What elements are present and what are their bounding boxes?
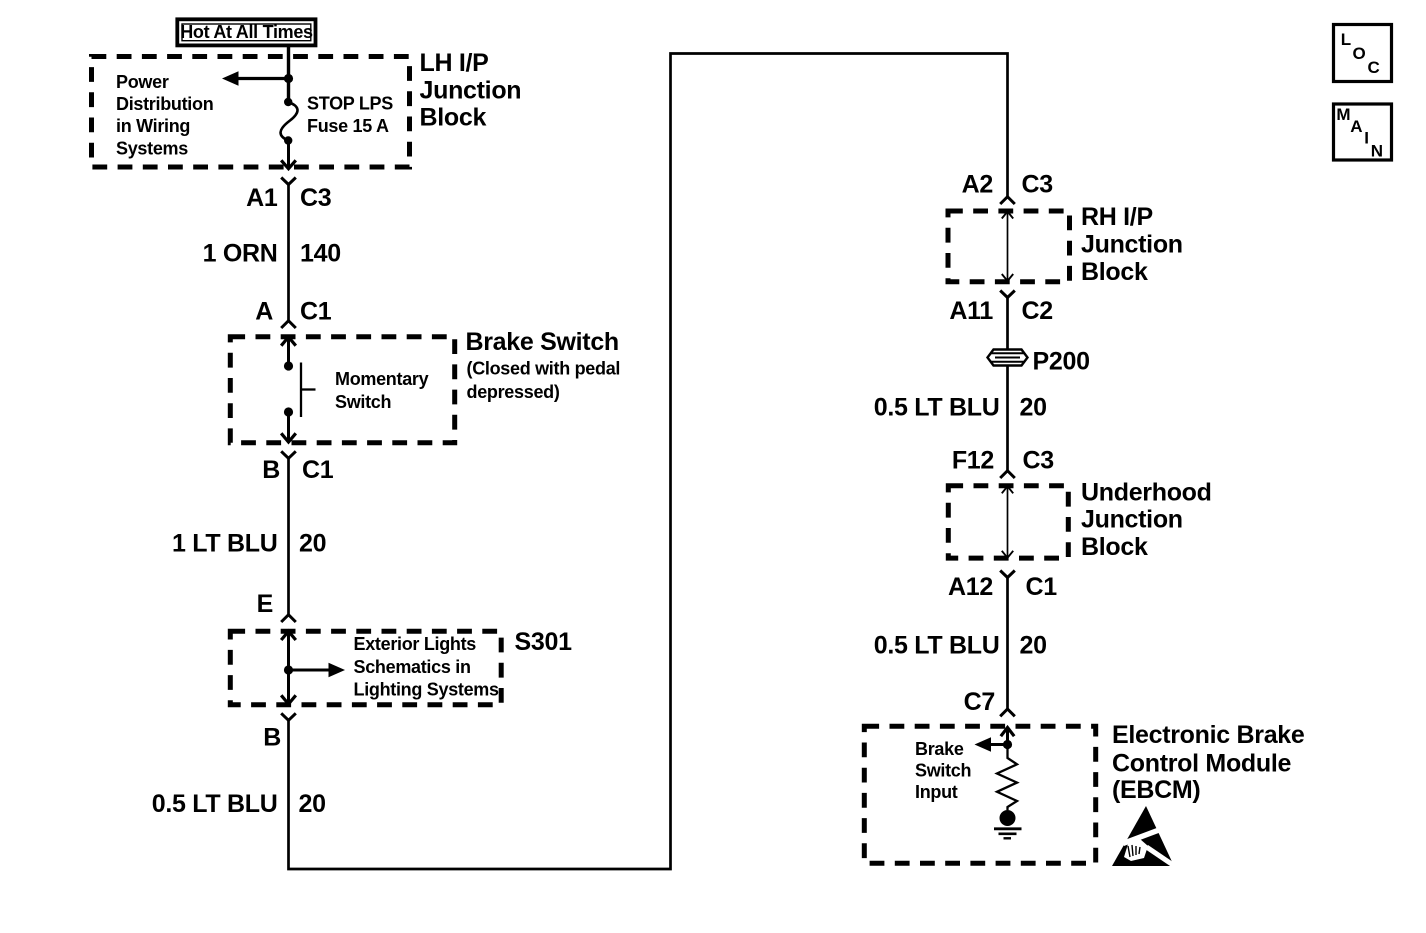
wire: 0.5 LT BLU 20 between P200 and Underhood JB xyxy=(1006,366,1009,471)
label: wire 1 LT BLU 20 xyxy=(172,530,326,558)
svg-text:140: 140 xyxy=(300,240,341,268)
svg-text:E: E xyxy=(257,590,273,618)
label: Power Distribution in Wiring Systems xyxy=(116,72,213,158)
svg-text:Momentary: Momentary xyxy=(335,369,429,389)
svg-text:Lighting Systems: Lighting Systems xyxy=(354,680,500,700)
svg-text:N: N xyxy=(1371,141,1383,160)
connector: chevron pin A12/C1 xyxy=(1000,571,1015,578)
svg-text:A: A xyxy=(255,298,273,326)
wire: 0.5 LT BLU 20 down to EBCM xyxy=(1006,578,1009,710)
label: pin A12 / C1 xyxy=(948,573,1057,601)
node: junction dot above fuse xyxy=(284,74,293,83)
svg-text:0.5 LT BLU: 0.5 LT BLU xyxy=(874,632,1000,660)
svg-text:Underhood: Underhood xyxy=(1081,478,1212,506)
svg-text:(EBCM): (EBCM) xyxy=(1112,776,1200,804)
component: Underhood Junction Block (dashed box) xyxy=(948,486,1068,558)
svg-text:C3: C3 xyxy=(1023,447,1054,475)
svg-text:20: 20 xyxy=(1020,632,1047,660)
svg-text:C7: C7 xyxy=(964,688,995,716)
svg-text:20: 20 xyxy=(299,530,326,558)
label: wire 0.5 LT BLU 20 (left) xyxy=(152,790,326,818)
svg-text:C2: C2 xyxy=(1022,297,1053,325)
svg-text:C1: C1 xyxy=(302,456,334,484)
wire: 0.5 LT BLU 20 long run to EBCM side xyxy=(289,54,1008,870)
svg-text:Junction: Junction xyxy=(420,76,522,104)
svg-text:0.5 LT BLU: 0.5 LT BLU xyxy=(152,790,278,818)
connector: chevron at Underhood JB entry xyxy=(1000,471,1015,478)
svg-text:Hot At All Times: Hot At All Times xyxy=(180,22,313,42)
label: pin A / C1 xyxy=(255,298,332,326)
svg-text:Control Module: Control Module xyxy=(1112,750,1291,778)
svg-text:Input: Input xyxy=(915,782,958,802)
svg-text:A2: A2 xyxy=(962,171,993,199)
connector: chevron pin B below S301 xyxy=(281,713,296,720)
component: LH I/P Junction Block (dashed box) xyxy=(92,57,410,168)
svg-text:B: B xyxy=(263,724,281,752)
label: RH I/P Junction Block xyxy=(1081,203,1183,286)
wire: battery feed from Hot At All Times into LH I/P junction block xyxy=(287,46,290,101)
label: pin F12 / C3 xyxy=(952,447,1054,475)
wire: branch arrow to Power Distribution xyxy=(222,71,289,86)
connector: female chevron pin A1/C3 xyxy=(281,178,296,185)
label: STOP LPS Fuse 15 A xyxy=(307,94,393,136)
svg-text:I: I xyxy=(1364,129,1369,148)
legend: MAIN reference box xyxy=(1334,104,1392,160)
svg-text:M: M xyxy=(1336,105,1350,124)
connector: chevron at brake switch entry xyxy=(281,321,296,328)
label: pin A1 / C3 xyxy=(246,184,331,212)
label: pin B / C1 xyxy=(262,456,334,484)
switch: momentary contacts inside brake switch xyxy=(281,337,315,442)
label: Brake Switch (Closed with pedal depressed) xyxy=(466,328,621,402)
node: Hot At All Times power feed box xyxy=(177,19,315,45)
svg-text:in Wiring: in Wiring xyxy=(116,116,190,136)
wire: pass-through with arrows inside RH I/P xyxy=(1002,212,1013,282)
svg-text:Brake: Brake xyxy=(915,739,964,759)
wire: down to P200 xyxy=(1006,298,1009,351)
svg-text:C1: C1 xyxy=(300,298,332,326)
EBCM input: arrow, node and branch to Brake Switch Input xyxy=(975,728,1015,752)
svg-text:A: A xyxy=(1350,117,1362,136)
svg-text:Block: Block xyxy=(1081,533,1148,561)
svg-text:Brake Switch: Brake Switch xyxy=(466,328,619,356)
connector: fuse output arrow at LH I/P box edge xyxy=(281,141,296,169)
svg-text:Exterior Lights: Exterior Lights xyxy=(354,634,477,654)
svg-text:STOP LPS: STOP LPS xyxy=(307,94,393,114)
svg-text:Electronic Brake: Electronic Brake xyxy=(1112,721,1305,749)
wire: 1 ORN 140 xyxy=(287,185,290,321)
connector: chevron at S301 entry xyxy=(281,615,296,622)
svg-text:1 ORN: 1 ORN xyxy=(203,240,278,268)
label: pin A2 / C3 xyxy=(962,171,1053,199)
svg-text:A12: A12 xyxy=(948,573,993,601)
connector: chevron pin B/C1 below brake switch xyxy=(281,451,296,458)
svg-text:Switch: Switch xyxy=(335,392,391,412)
resistor: EBCM internal pull resistor xyxy=(997,745,1017,811)
svg-text:20: 20 xyxy=(299,790,326,818)
component: RH I/P Junction Block (dashed box) xyxy=(948,211,1070,282)
svg-text:B: B xyxy=(262,456,280,484)
connector: chevron at RH I/P entry xyxy=(1000,197,1015,204)
svg-text:depressed): depressed) xyxy=(467,382,560,402)
label: wire 0.5 LT BLU 20 (upper right) xyxy=(874,394,1047,422)
svg-text:P200: P200 xyxy=(1033,348,1090,376)
symbol: ESD sensitive device xyxy=(1112,806,1176,868)
svg-text:Block: Block xyxy=(420,104,487,132)
svg-text:C: C xyxy=(1368,58,1380,77)
wire: 1 LT BLU 20 xyxy=(287,458,290,614)
svg-text:Block: Block xyxy=(1081,258,1148,286)
legend: LOC reference box xyxy=(1334,25,1392,82)
connector: chevron pin A11/C2 xyxy=(1000,291,1015,298)
label: LH I/P Junction Block xyxy=(420,49,522,132)
svg-text:C3: C3 xyxy=(300,184,331,212)
connector: chevron at EBCM entry xyxy=(1000,709,1015,716)
component: splice S301 (dashed box) xyxy=(230,631,501,704)
wire: pass-through with arrows inside Underhood JB xyxy=(1002,486,1013,558)
svg-text:A1: A1 xyxy=(246,184,278,212)
component: Electronic Brake Control Module EBCM (dashed box) xyxy=(864,726,1095,863)
splice: S301 internal arrows xyxy=(281,631,345,704)
svg-text:Switch: Switch xyxy=(915,761,971,781)
svg-text:0.5 LT BLU: 0.5 LT BLU xyxy=(874,394,1000,422)
svg-text:C3: C3 xyxy=(1022,171,1053,199)
svg-text:(Closed with pedal: (Closed with pedal xyxy=(467,359,621,379)
label: Momentary Switch xyxy=(335,369,429,412)
svg-text:A11: A11 xyxy=(949,297,993,325)
connector: P200 grommet pass-through xyxy=(988,350,1028,366)
label: Exterior Lights Schematics in Lighting Systems xyxy=(354,634,500,700)
component: Brake Switch (dashed box) xyxy=(230,337,454,443)
svg-text:C1: C1 xyxy=(1026,573,1058,601)
ground: EBCM internal ground xyxy=(994,810,1022,838)
svg-text:LH I/P: LH I/P xyxy=(420,49,489,77)
label: wire 0.5 LT BLU 20 (lower right) xyxy=(874,632,1047,660)
svg-text:RH I/P: RH I/P xyxy=(1081,203,1153,231)
svg-text:20: 20 xyxy=(1020,394,1047,422)
label: Electronic Brake Control Module (EBCM) xyxy=(1112,721,1305,804)
label: Underhood Junction Block xyxy=(1081,478,1212,561)
svg-text:S301: S301 xyxy=(515,628,573,656)
svg-text:Schematics in: Schematics in xyxy=(354,657,471,677)
fuse: STOP LPS Fuse 15 A xyxy=(281,98,298,145)
svg-text:1 LT BLU: 1 LT BLU xyxy=(172,530,277,558)
svg-text:Junction: Junction xyxy=(1081,230,1183,258)
svg-text:O: O xyxy=(1353,44,1366,63)
svg-text:Distribution: Distribution xyxy=(116,94,213,114)
svg-text:Fuse 15 A: Fuse 15 A xyxy=(307,116,389,136)
label: pin A11 / C2 xyxy=(949,297,1052,325)
label: Brake Switch Input xyxy=(915,739,971,802)
svg-text:F12: F12 xyxy=(952,447,994,475)
label: wire 1 ORN 140 xyxy=(203,240,341,268)
svg-text:Power: Power xyxy=(116,72,169,92)
svg-text:Systems: Systems xyxy=(116,138,188,158)
svg-text:Junction: Junction xyxy=(1081,506,1183,534)
svg-text:L: L xyxy=(1341,30,1351,49)
